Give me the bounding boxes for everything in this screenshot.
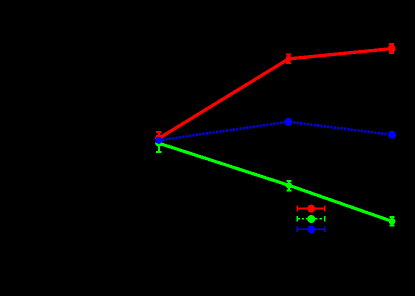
blue marker point 1 xyxy=(155,137,162,144)
red errorbar point 1 xyxy=(156,132,161,138)
red marker point 2 xyxy=(285,56,291,62)
blue marker point 2 xyxy=(284,118,292,126)
green errorbar point 3 xyxy=(389,217,394,225)
green marker point 3 xyxy=(389,218,396,225)
green errorbar point 1 xyxy=(156,143,161,152)
red series line xyxy=(159,49,392,139)
blue series dotted line xyxy=(159,122,392,141)
red errorbar point 3 xyxy=(389,44,394,53)
legend entry red errorbar sample xyxy=(297,206,324,212)
green marker point 2 xyxy=(286,182,292,188)
green errorbar point 2 xyxy=(286,181,291,190)
red marker point 1 xyxy=(155,135,162,142)
legend entry green errorbar sample (dashed) xyxy=(297,216,324,222)
blue marker point 3 xyxy=(388,131,396,139)
green series line xyxy=(159,143,392,221)
red errorbar point 2 xyxy=(286,55,291,63)
green marker point 1 xyxy=(155,140,162,147)
legend entry blue errorbar sample xyxy=(297,226,324,232)
red marker point 3 xyxy=(388,45,396,53)
